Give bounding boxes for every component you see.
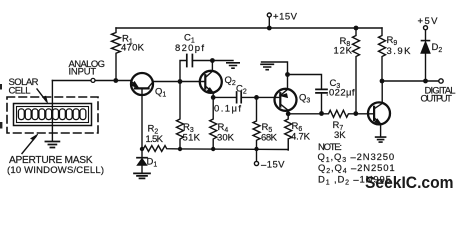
svg-text:68K: 68K (261, 133, 278, 144)
svg-text:C2: C2 (236, 84, 247, 96)
svg-text:51K: 51K (183, 133, 201, 144)
svg-text:Q3: Q3 (299, 93, 310, 105)
svg-text:820pf: 820pf (175, 43, 204, 54)
svg-text:–15V: –15V (261, 159, 285, 170)
svg-text:3.9K: 3.9K (387, 46, 412, 57)
svg-text:OUTPUT: OUTPUT (421, 94, 453, 105)
svg-text:+15V: +15V (273, 12, 298, 23)
svg-text:D2: D2 (432, 42, 443, 54)
svg-text:SeekIC.com: SeekIC.com (365, 174, 454, 192)
svg-text:+5V: +5V (418, 16, 439, 27)
svg-text:.022μf: .022μf (326, 88, 355, 99)
svg-text:CELL: CELL (9, 86, 31, 97)
svg-text:Q1: Q1 (155, 87, 166, 99)
svg-text:30K: 30K (217, 133, 235, 144)
svg-text:D1: D1 (147, 157, 158, 169)
svg-text:4.7K: 4.7K (291, 132, 311, 143)
svg-text:0.1μf: 0.1μf (214, 104, 241, 115)
svg-text:12K: 12K (334, 46, 353, 57)
svg-text:1.5K: 1.5K (146, 134, 164, 145)
svg-text:3K: 3K (334, 130, 346, 141)
svg-text:Q1,Q3 –2N3250: Q1,Q3 –2N3250 (318, 152, 396, 164)
svg-text:(10 WINDOWS/CELL): (10 WINDOWS/CELL) (7, 165, 104, 176)
svg-text:INPUT: INPUT (69, 67, 97, 78)
svg-text:Q2: Q2 (225, 75, 236, 87)
svg-text:470K: 470K (121, 43, 145, 54)
